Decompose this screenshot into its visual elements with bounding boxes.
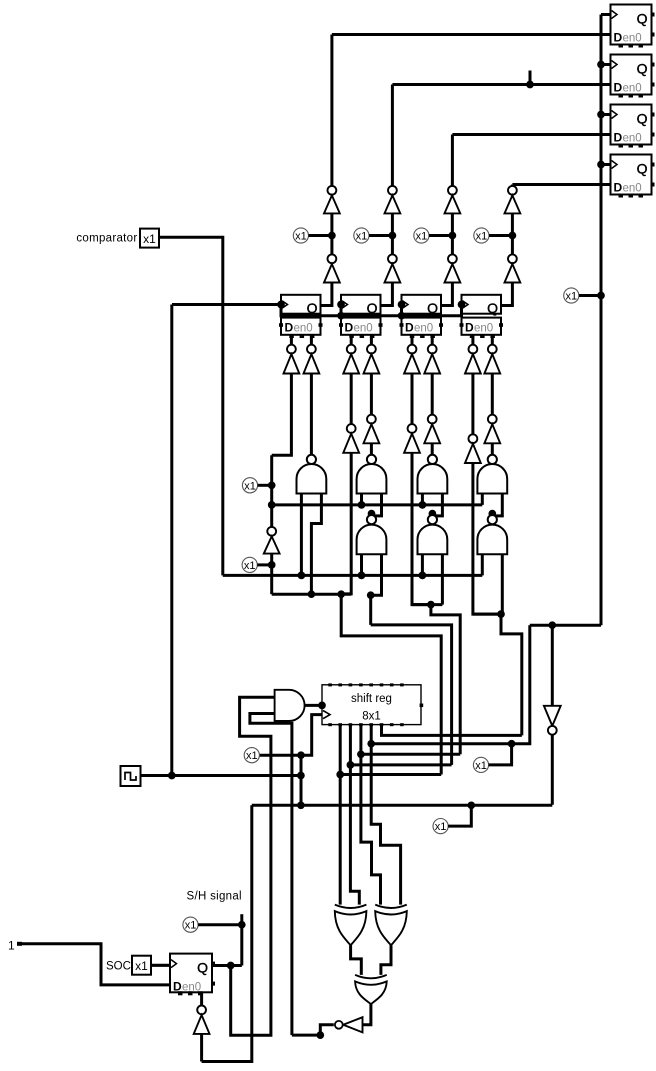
wire Q column 2 lower xyxy=(381,283,393,306)
inverter S8b xyxy=(484,415,500,444)
svg-text:x1: x1 xyxy=(476,231,488,243)
wire clock horizontal y=805 xyxy=(252,801,553,809)
svg-text:x1: x1 xyxy=(185,920,197,932)
wire D input U1 xyxy=(332,33,611,36)
net N2 staircase xyxy=(367,591,452,765)
wire column 432 tail upper xyxy=(431,374,434,415)
inverter S9 (under U5) xyxy=(194,1006,210,1034)
net N3 staircase xyxy=(412,601,460,755)
nand N1 (row 1) xyxy=(297,455,327,494)
wire column 473 tail upper xyxy=(471,374,474,435)
svg-text:comparator: comparator xyxy=(76,233,137,245)
nand M2 (row 2) xyxy=(418,515,448,554)
inverter S4b xyxy=(364,415,380,444)
svg-text:1: 1 xyxy=(8,939,15,953)
pin comparator x1 xyxy=(140,229,159,248)
flip-flop R1 (SAR register bit 1) xyxy=(279,295,323,338)
inverter S5 (FF enable driver) xyxy=(404,345,420,374)
inverter G3b (lower) xyxy=(445,254,461,282)
wire clock chain under FFs xyxy=(281,301,465,320)
nand N3 (row 1) xyxy=(418,455,448,494)
svg-text:SOC: SOC xyxy=(106,961,131,973)
wire M2 legs xyxy=(422,554,442,604)
svg-text:x1: x1 xyxy=(135,959,148,973)
inverter G2a (upper) xyxy=(385,186,401,213)
svg-text:Q: Q xyxy=(637,61,648,77)
svg-text:D: D xyxy=(614,81,623,95)
wire FF south pin 7 xyxy=(471,335,474,345)
wire clock output xyxy=(141,772,305,780)
and gate A1 xyxy=(275,690,305,721)
inverter S6b xyxy=(424,415,440,444)
probe x1 Q4 xyxy=(474,228,513,243)
svg-text:en0: en0 xyxy=(474,323,493,335)
svg-text:Q: Q xyxy=(637,111,648,127)
pin SOC x1 xyxy=(132,956,151,975)
probe x1 clock xyxy=(244,748,259,763)
svg-text:S/H signal: S/H signal xyxy=(187,891,242,903)
wire drop p3 to XOR1 right xyxy=(347,725,360,905)
wire N3 legs xyxy=(422,494,442,518)
svg-text:x1: x1 xyxy=(565,291,577,303)
svg-text:shift reg: shift reg xyxy=(351,693,392,705)
wire column 432 tail lower xyxy=(431,443,434,455)
wire S/H stub xyxy=(238,914,246,928)
wire Q column 3 lower xyxy=(441,283,453,306)
wire right clock bus x=601 xyxy=(601,15,611,626)
wire node A vertical 271.7 xyxy=(268,455,276,527)
wire column 291 tail xyxy=(272,374,292,456)
svg-text:Q: Q xyxy=(197,960,208,976)
wire Q column 3 upper xyxy=(451,135,454,187)
flip-flop U4 (output register bit 4) xyxy=(611,155,655,198)
probe x1 right bus xyxy=(564,288,601,303)
wire FF south pin 6 xyxy=(431,335,434,345)
svg-text:x1: x1 xyxy=(416,231,428,243)
inverter S4 (FF enable driver) xyxy=(364,345,380,374)
nand M3 (row 2) xyxy=(477,515,507,554)
inverter G3a (upper) xyxy=(445,186,461,213)
wire column 412 tail upper xyxy=(411,374,414,425)
svg-text:x1: x1 xyxy=(435,821,447,833)
wire H return V3 xyxy=(361,753,460,756)
wire drop p4 to XOR2 left xyxy=(357,725,380,905)
wire clock feed to R1 xyxy=(172,301,285,309)
inverter S5b xyxy=(404,424,420,453)
wire H return drop4 xyxy=(371,625,530,744)
svg-text:D: D xyxy=(465,321,474,335)
wire Q column 4 mid xyxy=(509,213,517,254)
wire column 351 tail lower xyxy=(341,453,351,594)
svg-text:en0: en0 xyxy=(623,133,642,145)
nand M1 (row 2) xyxy=(357,515,387,554)
inverter S7 (FF enable driver) xyxy=(465,345,481,374)
net N4 staircase xyxy=(473,610,522,735)
wire S/H to Q xyxy=(240,925,243,966)
wire column 371 tail lower xyxy=(370,443,373,455)
svg-text:x1: x1 xyxy=(143,232,156,246)
wire FF south pin 3 xyxy=(350,335,353,345)
wire S9 input xyxy=(200,1034,203,1062)
flip-flop U5 (SOC) xyxy=(170,954,215,996)
inverter G4a (upper) xyxy=(505,186,521,213)
wire INV-A input xyxy=(268,554,276,595)
probe x1 Q3 xyxy=(414,228,453,243)
wire X2 output xyxy=(381,945,391,975)
xor X3 xyxy=(355,975,387,1004)
wire column 473 tail lower xyxy=(473,463,501,614)
wire bus to inverter V xyxy=(530,621,601,629)
wire column 412 tail lower xyxy=(412,453,431,605)
svg-text:Q: Q xyxy=(487,300,498,316)
wire bus enable y=505 xyxy=(272,501,483,509)
probe x1 at V2 return xyxy=(473,740,515,773)
wire comparator net xyxy=(159,237,223,575)
wire column 492 tail lower xyxy=(491,443,494,455)
probe x1 Q2 xyxy=(354,228,393,243)
svg-text:D: D xyxy=(285,321,294,335)
svg-text:x1: x1 xyxy=(475,760,487,772)
wire constant to D xyxy=(21,944,170,985)
label comparator xyxy=(76,233,137,245)
flip-flop R4 (SAR register bit 4) xyxy=(460,295,504,338)
svg-text:Q: Q xyxy=(427,300,438,316)
wire INV-L output xyxy=(292,1025,334,1039)
wire H return V1 xyxy=(340,773,441,776)
wire N4 legs xyxy=(482,494,502,518)
probe x1 S/H xyxy=(183,917,242,932)
nand N4 (row 1) xyxy=(477,455,507,494)
probe x1 node B xyxy=(242,557,272,572)
flip-flop R3 (SAR register bit 3) xyxy=(400,295,444,338)
wire X1 output xyxy=(351,945,362,975)
wire D input U2 xyxy=(392,71,610,89)
wire N1 legs xyxy=(301,494,321,595)
svg-text:Q: Q xyxy=(637,161,648,177)
wire drop p2 to XOR1 left xyxy=(336,725,344,905)
svg-text:x1: x1 xyxy=(356,231,368,243)
svg-text:D: D xyxy=(405,321,414,335)
wire D input U4 xyxy=(512,183,610,186)
svg-text:en0: en0 xyxy=(294,323,313,335)
wire bus comparator y=575 xyxy=(223,572,483,580)
svg-text:8x1: 8x1 xyxy=(362,711,381,723)
wire U5 Q output xyxy=(212,962,242,970)
svg-text:Q: Q xyxy=(637,11,648,27)
wire FF south pin 1 xyxy=(290,335,293,345)
wire Q column 1 mid xyxy=(328,213,336,254)
wire drop p5 to XOR2 right xyxy=(367,725,400,905)
wire U5 south pin xyxy=(200,992,203,1005)
xor X2 xyxy=(375,905,407,946)
wire column 351 tail upper xyxy=(350,374,353,425)
label SOC xyxy=(106,961,131,973)
svg-text:en0: en0 xyxy=(354,323,373,335)
svg-text:en0: en0 xyxy=(414,323,433,335)
wire rail 251 down xyxy=(202,805,252,1061)
inverter INV-A xyxy=(264,527,280,554)
inverter S6 (FF enable driver) xyxy=(424,345,440,374)
wire inverter V output xyxy=(551,735,554,805)
wire FF south pin 2 xyxy=(310,335,313,345)
inverter G1a (upper) xyxy=(324,186,340,213)
wire X3 output xyxy=(363,1004,371,1025)
svg-text:x1: x1 xyxy=(244,480,256,492)
flip-flop U2 (output register bit 2) xyxy=(611,55,655,98)
svg-text:x1: x1 xyxy=(244,560,256,572)
flip-flop R2 (SAR register bit 2) xyxy=(339,295,383,338)
wire M1 legs xyxy=(362,554,382,625)
svg-text:en0: en0 xyxy=(623,33,642,45)
wire FF south pin 4 xyxy=(370,335,373,345)
shift register SR1 8x1 xyxy=(322,683,423,726)
svg-text:x1: x1 xyxy=(246,750,258,762)
label 1 constant xyxy=(8,939,22,953)
inverter S7b xyxy=(465,434,481,463)
svg-text:D: D xyxy=(614,131,623,145)
wire A1 lower input net xyxy=(250,714,292,1036)
wire Q column 2 upper xyxy=(391,85,394,187)
inverter G2b (lower) xyxy=(385,254,401,282)
inverter G4b (lower) xyxy=(505,254,521,282)
wire N2 legs xyxy=(362,494,382,518)
wire Q column 1 upper xyxy=(330,35,333,187)
inverter INV-V (down) xyxy=(544,706,561,735)
wire column 311 tail xyxy=(310,374,313,456)
svg-text:D: D xyxy=(614,31,623,45)
inverter S8 (FF enable driver) xyxy=(484,345,500,374)
wire Q column 1 lower xyxy=(320,283,332,306)
probe x1 at 805 line xyxy=(433,805,471,833)
wire A1 upper input net (SOC Q) xyxy=(231,697,275,1035)
wire column 492 tail upper xyxy=(491,374,494,415)
wire Q column 4 upper xyxy=(511,185,514,187)
nand N2 (row 1) xyxy=(357,455,387,494)
probe x1 node A xyxy=(242,478,271,493)
svg-text:D: D xyxy=(614,181,623,195)
wire Q column 4 lower xyxy=(501,283,513,306)
wire Q column 3 mid xyxy=(449,213,457,254)
wire A1 output xyxy=(305,702,326,710)
clock source CLK1 xyxy=(121,766,141,786)
inverter G1b (lower) xyxy=(324,254,340,282)
wire column 371 tail upper xyxy=(370,374,373,415)
xor X1 xyxy=(335,905,367,946)
net N1 staircase xyxy=(272,590,442,774)
wire Q column 2 mid xyxy=(389,213,397,254)
wire SOC to clock xyxy=(151,964,170,967)
wire drop p6 to H1 xyxy=(382,725,522,736)
wire FF south pin 8 xyxy=(491,335,494,345)
inverter S2 (FF enable driver) xyxy=(304,345,320,374)
svg-text:en0: en0 xyxy=(623,183,642,195)
flip-flop U1 (output register bit 1) xyxy=(611,5,655,48)
wire FF south pin 5 xyxy=(411,335,414,345)
svg-text:Q: Q xyxy=(367,300,378,316)
wire H return V2 xyxy=(350,763,451,766)
inverter INV-L (left) xyxy=(335,1017,363,1032)
wire M3 legs xyxy=(482,554,502,614)
wire D input U3 xyxy=(452,133,610,136)
flip-flop U3 (output register bit 3) xyxy=(611,105,655,148)
junction right clock bus dots xyxy=(597,61,605,300)
svg-text:D: D xyxy=(345,321,354,335)
svg-text:Q: Q xyxy=(307,300,318,316)
label S/H signal xyxy=(187,891,242,903)
inverter S3b xyxy=(343,424,359,453)
wire clock to shift reg xyxy=(259,715,322,759)
inverter S3 (FF enable driver) xyxy=(343,345,359,374)
wire clock down link xyxy=(300,755,303,805)
svg-text:x1: x1 xyxy=(295,231,307,243)
probe x1 Q1 xyxy=(293,228,332,243)
svg-text:en0: en0 xyxy=(623,83,642,95)
wire inverter V input xyxy=(551,625,554,705)
inverter S1 (FF enable driver) xyxy=(284,345,300,374)
wire clock rail up xyxy=(170,305,173,776)
